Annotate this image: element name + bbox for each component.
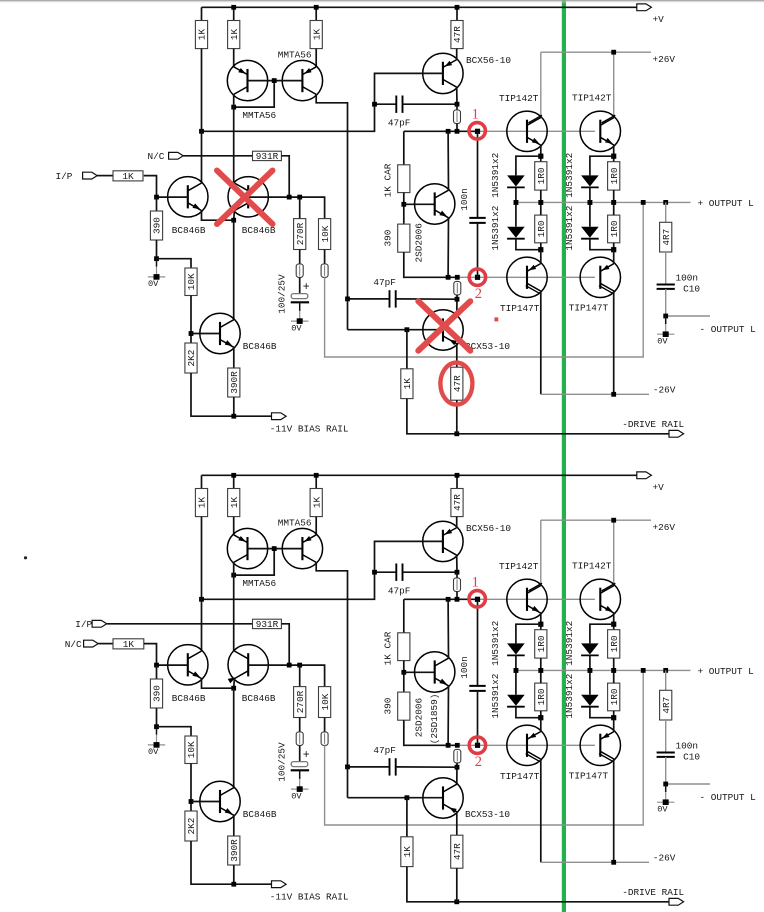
ground 0V input [148, 727, 165, 758]
wire to 10K [157, 259, 192, 268]
wire Q5 emitter [202, 679, 234, 689]
node emitter tie top left [538, 622, 543, 627]
label MMTA56 Q2 [278, 518, 312, 529]
svg-text:10K: 10K [186, 741, 197, 758]
transistor TIP142T Q10 [507, 579, 547, 619]
wire mirror-right emitter [315, 517, 317, 535]
label BCX56-10 [466, 55, 511, 66]
wire mirror-left emitter [233, 517, 235, 535]
wire diode stub bottom left [516, 707, 541, 718]
stray dot [24, 556, 27, 559]
svg-text:BC846B: BC846B [243, 341, 277, 352]
label + OUTPUT L [698, 666, 755, 677]
diode 1N5391x2 D2 right [581, 227, 599, 239]
wire 1R0a bottom right [613, 658, 615, 670]
diode 1N5391x2 D2 left [507, 695, 525, 707]
node -26V junction [611, 860, 616, 865]
svg-text:47pF: 47pF [388, 117, 411, 128]
svg-text:1: 1 [472, 107, 479, 123]
wire TIP147-1 collector [540, 291, 542, 394]
svg-text:I/P: I/P [56, 171, 73, 182]
svg-text:BCX53-10: BCX53-10 [465, 809, 510, 820]
wire 270R to link [299, 718, 301, 732]
svg-text:-DRIVE RAIL: -DRIVE RAIL [622, 887, 684, 898]
node output rail junction [611, 668, 616, 673]
wire BCX53 emitter [456, 344, 458, 367]
label TIP147T Q12 [500, 303, 540, 314]
node BC846B collector tap [199, 597, 204, 602]
transistor BCX56-10 Q4 [423, 521, 463, 561]
wire Q6 emitter [233, 211, 236, 221]
label -26V [653, 384, 676, 395]
transistor BC846B Q6 [228, 177, 269, 217]
svg-text:47pF: 47pF [373, 277, 396, 288]
wire diode D1 bottom right [589, 187, 591, 202]
svg-text:47R: 47R [452, 494, 463, 511]
wire 10K to 2K2 [190, 764, 192, 812]
label -26V [653, 852, 676, 863]
node emitter join [231, 686, 236, 691]
node output rail junction [514, 668, 519, 673]
wire 1R0b bottom right [613, 711, 615, 718]
svg-text:1R0: 1R0 [536, 220, 547, 237]
resistor 1K (mirror left) [228, 21, 240, 49]
label 390 VAS [383, 229, 394, 246]
wire mirror-right collector [316, 94, 347, 299]
label - OUTPUT L [700, 792, 757, 803]
label + polarity [303, 281, 310, 294]
wire diode D2 top left [515, 670, 517, 694]
node rail res right [611, 668, 616, 673]
svg-text:MMTA56: MMTA56 [278, 518, 312, 529]
wire 1K R1 drop [201, 7, 203, 20]
wire diode D1 bottom left [515, 187, 517, 202]
capacitor 100n C2 [469, 218, 485, 223]
wire 1K-CAR top drop [403, 131, 405, 165]
label 47pF C3 [373, 745, 396, 756]
wire BCX53 base run [347, 767, 349, 798]
wire link4 to BCX53 [456, 763, 458, 784]
resistor 1K pulldown [401, 369, 413, 399]
flag -DRIVE RAIL [669, 898, 684, 905]
wire VAS base [404, 203, 435, 205]
node rail res left [538, 668, 543, 673]
transistor BC846B Q7 tail [200, 313, 240, 353]
node emitter tie bottom left [538, 715, 543, 720]
label 1K CAR [383, 631, 394, 665]
capacitor 47pF C3 [390, 758, 396, 775]
node 931R junction [287, 195, 292, 200]
node -26V junction [611, 392, 616, 397]
resistor 1K pulldown [401, 837, 413, 867]
resistor 10K bias [185, 268, 197, 296]
resistor 1K input [113, 171, 143, 182]
wire 1R0b top left [540, 670, 542, 683]
wire TIP142 emitter left [540, 145, 542, 162]
annotation red label 2 [475, 286, 482, 302]
resistor 1K CAR [398, 633, 410, 661]
wire 1K R2 drop [233, 7, 235, 20]
svg-text:MMTA56: MMTA56 [242, 578, 276, 589]
node 931R junction [287, 663, 292, 668]
wire BCX53 base [348, 797, 444, 799]
svg-text:TIP147T: TIP147T [569, 770, 609, 781]
node 47R drive junction [454, 899, 459, 904]
svg-text:C10: C10 [683, 284, 700, 295]
node mirror-left collector tie [231, 105, 236, 110]
label I/P [56, 171, 73, 182]
wire 47R bottom [456, 400, 458, 434]
svg-text:+V: +V [653, 482, 665, 493]
node -OUTPUT junction [663, 782, 668, 787]
svg-text:47R: 47R [452, 375, 463, 392]
resistor 390R [228, 836, 240, 865]
svg-text:1N5391x2: 1N5391x2 [490, 674, 501, 719]
jumper link L3 [321, 732, 328, 746]
label 100n C2 [459, 188, 470, 211]
resistor 1K CAR [398, 165, 410, 193]
wire node1 rail black [404, 130, 478, 132]
wire node2 rail grey [457, 276, 595, 278]
annotation red label 1 [472, 575, 479, 591]
resistor 1K (mirror right) [310, 21, 322, 49]
wire Q5 base [157, 196, 188, 198]
svg-text:TIP142T: TIP142T [499, 93, 539, 104]
wire TIP142 emitter right [613, 145, 615, 162]
svg-text:1K: 1K [402, 378, 413, 390]
wire node2 rail grey [457, 744, 595, 746]
resistor 390 VAS [398, 224, 410, 252]
wire BCX53 base run [347, 299, 349, 330]
svg-text:-26V: -26V [653, 384, 676, 395]
wire 1R0a bottom right [613, 190, 615, 202]
resistor 10K bias [185, 736, 197, 764]
label C10 [683, 752, 700, 763]
resistor 1K (mirror left) [228, 489, 240, 517]
wire 100n top [477, 131, 479, 218]
wire diode stub bottom right [590, 239, 614, 250]
wire +V top rail [202, 6, 637, 8]
label 100/25V [276, 274, 287, 314]
svg-text:270R: 270R [295, 690, 306, 713]
label 47pF C1 [388, 117, 411, 128]
wire diode D2 top left [515, 202, 517, 226]
label 1N5391x2 D2 left [490, 206, 501, 251]
node output rail junction [641, 668, 646, 673]
wire 1K CAR bottom [403, 193, 405, 225]
node VAS base [401, 670, 406, 675]
wire diode D2 top right [589, 670, 591, 694]
wire C10 bottom [665, 757, 667, 784]
wire tail collector [233, 688, 235, 788]
node input node [154, 663, 159, 668]
node 47pF-2 left junction [345, 297, 350, 302]
svg-text:1N5391x2: 1N5391x2 [490, 621, 501, 666]
wire TIP147 emitter left [540, 250, 542, 264]
transistor MMTA56 Q2 [282, 528, 322, 568]
svg-text:BC846B: BC846B [172, 225, 206, 236]
svg-text:1N5391x2: 1N5391x2 [564, 153, 575, 198]
label BC846B Q7 [243, 341, 277, 352]
wire mirror base tie [248, 80, 303, 82]
label +26V [653, 54, 676, 65]
node rail res left [538, 200, 543, 205]
label MMTA56 Q2 [278, 50, 312, 61]
svg-text:390: 390 [152, 685, 163, 702]
wire 47R bottom [456, 868, 458, 902]
transistor TIP147T Q13 [580, 257, 620, 297]
capacitor 100n C2 [469, 686, 485, 691]
wire mirror-right emitter [315, 49, 317, 67]
wire N/C line [183, 155, 252, 157]
wire 1K R1 drop [201, 475, 203, 488]
wire tail base [191, 801, 220, 803]
wire 270R to link [299, 250, 301, 264]
wire diode stub top right [590, 156, 614, 175]
annotation red circle node 1 [469, 591, 485, 607]
node rail diode right [588, 200, 593, 205]
svg-text:390: 390 [152, 217, 163, 234]
resistor 931R [253, 619, 282, 630]
resistor 931R [253, 151, 282, 162]
wire TIP142-1 collector [540, 520, 542, 585]
node -OUTPUT junction [663, 314, 668, 319]
svg-text:1K: 1K [311, 29, 322, 41]
svg-text:1N5391x2: 1N5391x2 [490, 153, 501, 198]
node link1 junction [455, 597, 460, 602]
node -11V rail junction [231, 414, 236, 419]
svg-text:1K: 1K [402, 846, 413, 858]
svg-text:2SD2006: 2SD2006 [414, 698, 425, 738]
node 47pF-2 left junction [345, 765, 350, 770]
node emitter tie top right [611, 622, 616, 627]
svg-text:1R0: 1R0 [536, 167, 547, 184]
svg-text:1R0: 1R0 [536, 635, 547, 652]
wire Q7 emitter [233, 347, 235, 368]
label (2SD1859) [429, 694, 440, 745]
wire link1 top [456, 104, 458, 110]
node BCX53 base 1K [405, 327, 410, 332]
node BC846B collector tap [199, 129, 204, 134]
svg-text:1R0: 1R0 [609, 688, 620, 705]
svg-text:390: 390 [383, 697, 394, 714]
annotation red ellipse 47R [440, 363, 472, 405]
label 1N5391x2 D1 right [564, 153, 575, 198]
label 1K CAR [383, 163, 394, 197]
wire 2SD collector [447, 131, 449, 190]
label TIP147T Q13 [569, 770, 609, 781]
wire 47pF-2 right [396, 766, 457, 768]
node 47pF-1 left junction [372, 570, 377, 575]
svg-text:2: 2 [475, 754, 482, 770]
wire 390 top [156, 197, 158, 211]
label 100n C2 [459, 656, 470, 679]
wire link1 bottom [456, 124, 458, 132]
resistor 1K input [113, 639, 144, 650]
node 47pF-1 left junction [372, 102, 377, 107]
label TIP142T Q11 [572, 561, 612, 572]
svg-text:1K: 1K [311, 497, 322, 509]
svg-text:TIP142T: TIP142T [572, 93, 612, 104]
label 47pF C1 [388, 585, 411, 596]
wire diode stub top right [590, 624, 614, 643]
resistor 47R (VAS load) [451, 21, 463, 49]
node 390 bottom [154, 256, 159, 261]
svg-text:+ OUTPUT L: + OUTPUT L [698, 198, 755, 209]
wire mirror-left collector [233, 94, 235, 183]
resistor 10K feedback [319, 687, 331, 718]
svg-text:100n: 100n [676, 272, 699, 283]
svg-text:0V: 0V [657, 337, 668, 347]
node 390 bottom [154, 724, 159, 729]
node mirror base tie [272, 546, 277, 551]
wire 390 VAS bottom [404, 252, 458, 277]
label TIP147T Q13 [569, 302, 609, 313]
label -11V BIAS RAIL [270, 423, 349, 434]
label +V [653, 14, 665, 25]
node 2 marker [475, 275, 480, 280]
svg-text:+: + [303, 281, 310, 294]
svg-text:2K2: 2K2 [186, 350, 197, 367]
svg-text:1K CAR: 1K CAR [383, 631, 394, 665]
svg-text:100n: 100n [459, 656, 470, 679]
svg-text:+26V: +26V [653, 522, 676, 533]
label BCX56-10 [466, 523, 511, 534]
label MMTA56 Q1 [242, 110, 276, 121]
annotation red X BCX53 [418, 301, 470, 351]
label BC846B Q6 [242, 693, 276, 704]
node tail base [189, 799, 194, 804]
svg-text:TIP147T: TIP147T [500, 303, 540, 314]
transistor TIP147T Q13 [580, 725, 620, 765]
diode 1N5391x2 D2 left [507, 227, 525, 239]
wire 47pF-2 right [396, 298, 457, 300]
wire drive rail [407, 399, 669, 434]
top border gradient [0, 0, 764, 4]
node VAS base [401, 202, 406, 207]
node 2 marker [475, 743, 480, 748]
svg-text:+26V: +26V [653, 54, 676, 65]
resistor 1R0 a right [608, 630, 620, 658]
wire tail base [191, 333, 220, 335]
node junction rail-R2 [231, 473, 236, 478]
node output rail junction [641, 200, 646, 205]
node 1 marker [475, 129, 480, 134]
wire 1R0a bottom left [540, 658, 542, 670]
wire 2SD collector [447, 599, 449, 658]
label -DRIVE RAIL [622, 419, 684, 430]
diode 1N5391x2 D2 right [581, 695, 599, 707]
wire TIP142 emitter left [540, 613, 542, 630]
ground 0V zobel [657, 316, 674, 347]
label - OUTPUT L [700, 324, 757, 335]
resistor 4R7 [660, 690, 672, 720]
node mirror-left collector tie [231, 573, 236, 578]
node rail diode right [588, 668, 593, 673]
label 390 VAS [383, 697, 394, 714]
svg-text:I/P: I/P [75, 619, 92, 630]
wire 1K R3 drop [315, 7, 317, 20]
label 1N5391x2 D2 right [564, 674, 575, 719]
node junction rail-R3 [314, 5, 319, 10]
wire output rail [516, 669, 691, 671]
wire 390R bottom [233, 865, 235, 884]
wire cap bottom [299, 769, 301, 772]
wire 270R drop [299, 197, 301, 219]
label 1N5391x2 D1 right [564, 621, 575, 666]
resistor 1R0 b right [608, 215, 620, 243]
node emitter tie bottom left [538, 247, 543, 252]
svg-text:2K2: 2K2 [186, 818, 197, 835]
wire 1K R3 drop [315, 475, 317, 488]
wire 390 bottom [156, 240, 158, 259]
wire 10K fb to link [324, 718, 326, 732]
jumper link L1 [454, 578, 461, 592]
svg-text:1K: 1K [229, 29, 240, 41]
transistor TIP142T Q10 [507, 111, 547, 151]
annotation red label 2 [475, 754, 482, 770]
node output rail junction [514, 200, 519, 205]
label + polarity [303, 749, 310, 762]
svg-text:1K: 1K [122, 171, 134, 182]
wire Q5 emitter [202, 211, 234, 221]
annotation red dot [494, 317, 498, 321]
label 1N5391x2 D2 left [490, 674, 501, 719]
wire +26V rail [541, 519, 651, 521]
jumper link L2 [296, 732, 303, 746]
ground 0V cap [291, 771, 308, 802]
wire TIP147-1 collector [540, 759, 542, 862]
label TIP147T Q12 [500, 771, 540, 782]
resistor 1R0 a right [608, 162, 620, 190]
label 1N5391x2 D1 left [490, 153, 501, 198]
node 2SD collector junction [446, 129, 451, 134]
label I/P [75, 619, 92, 630]
node junction rail-R4 [455, 5, 460, 10]
node output rail junction [663, 200, 668, 205]
node emitter tie bottom right [611, 715, 616, 720]
node 270R junction [297, 663, 302, 668]
resistor 1R0 a left [535, 162, 547, 190]
capacitor 100n C10 [657, 753, 675, 757]
node junction rail-R3 [314, 473, 319, 478]
transistor MMTA56 Q2 [282, 60, 322, 100]
node 2SD emitter junction [446, 743, 451, 748]
svg-text:0V: 0V [148, 279, 159, 289]
transistor BC846B Q5 [168, 645, 208, 685]
svg-text:1N5391x2: 1N5391x2 [490, 206, 501, 251]
node output rail junction [663, 668, 668, 673]
wire 2K2 bottom [191, 841, 272, 884]
transistor TIP142T Q11 [580, 111, 620, 151]
wire tail collector [233, 220, 235, 320]
wire cap bottom [299, 301, 301, 304]
resistor 270R [294, 687, 306, 718]
wire 47R R4 drop [456, 7, 458, 20]
node link4 junction [455, 743, 460, 748]
label 2SD2006 [414, 698, 425, 738]
label +26V [653, 522, 676, 533]
flag -DRIVE RAIL [669, 430, 684, 437]
wire diode stub top left [516, 156, 541, 175]
resistor 1R0 b left [535, 215, 547, 243]
wire mirror base drop [234, 549, 275, 576]
annotation red label 1 [472, 107, 479, 123]
transistor TIP142T Q11 [580, 579, 620, 619]
wire 1K pulldown top [406, 798, 408, 837]
label N/C [148, 151, 165, 162]
wire 270R drop [299, 665, 301, 687]
